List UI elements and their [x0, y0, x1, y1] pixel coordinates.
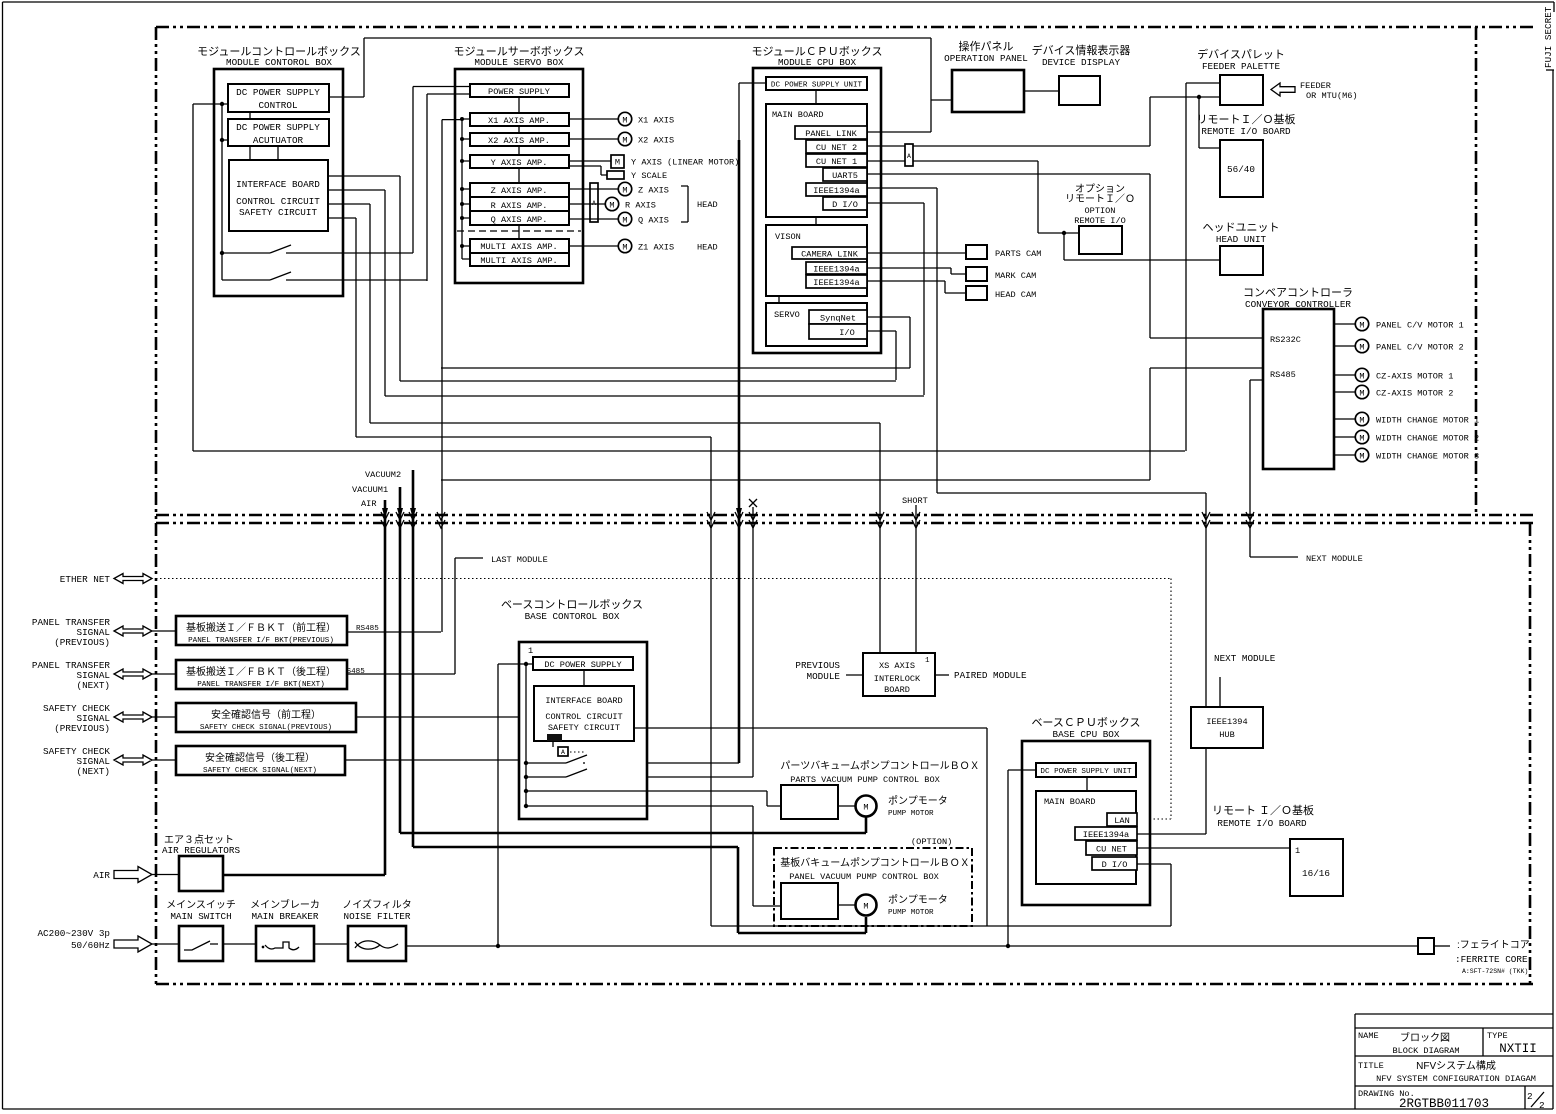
region separator dash-dot lower	[156, 522, 1533, 525]
svg-text:Y AXIS AMP.: Y AXIS AMP.	[491, 158, 548, 168]
main board (base)	[1036, 791, 1136, 884]
wire cu net 2 to feeder palette	[867, 97, 1221, 146]
svg-text:M: M	[622, 136, 627, 146]
svg-text:基板搬送Ｉ／ＦＢＫＴ（前工程）: 基板搬送Ｉ／ＦＢＫＴ（前工程）	[186, 621, 336, 634]
interface board right wires	[328, 176, 400, 218]
svg-text:R AXIS AMP.: R AXIS AMP.	[491, 201, 548, 211]
svg-text:X1 AXIS AMP.: X1 AXIS AMP.	[488, 116, 550, 126]
head cam box	[966, 286, 1036, 300]
svg-text:CZ-AXIS MOTOR 1: CZ-AXIS MOTOR 1	[1376, 372, 1453, 382]
svg-text:A: A	[561, 749, 565, 756]
svg-text:PANEL C/V MOTOR 2: PANEL C/V MOTOR 2	[1376, 343, 1464, 353]
wire d i/o (base) long run	[711, 864, 1171, 926]
motor Z1	[569, 239, 718, 252]
svg-text:NXTII: NXTII	[1499, 1042, 1537, 1056]
r axis amp	[470, 197, 569, 211]
wire uart5 to conveyor rs232c	[867, 174, 1263, 338]
svg-text::FERRITE CORE: :FERRITE CORE	[1455, 954, 1528, 965]
lan port	[1107, 813, 1137, 826]
ether net double arrow	[114, 574, 152, 584]
svg-text:VISON: VISON	[775, 232, 801, 242]
svg-text:OPERATION PANEL: OPERATION PANEL	[944, 53, 1028, 64]
svg-text:SAFETY CIRCUIT: SAFETY CIRCUIT	[239, 207, 318, 218]
svg-text:MAIN BOARD: MAIN BOARD	[772, 110, 824, 120]
svg-text:REMOTE I/O BOARD: REMOTE I/O BOARD	[1217, 818, 1307, 829]
svg-text:SynqNet: SynqNet	[820, 314, 856, 324]
svg-text:CONTROL: CONTROL	[258, 100, 297, 111]
svg-text:HUB: HUB	[1219, 730, 1234, 740]
air input arrow	[114, 867, 152, 883]
cu net 2 port	[806, 140, 867, 153]
rs485 chain x441 lower	[347, 631, 441, 633]
cz-axis motor 1	[1334, 368, 1453, 381]
svg-text:MODULE CPU BOX: MODULE CPU BOX	[778, 57, 857, 68]
module servo box U11	[455, 69, 583, 283]
dc power supply (base)	[533, 657, 633, 670]
svg-text:OPTION: OPTION	[1085, 206, 1116, 216]
base wire to panel vacuum box	[526, 806, 781, 906]
svg-text:RS485: RS485	[1270, 370, 1296, 380]
svg-text:CONTROL CIRCUIT: CONTROL CIRCUIT	[545, 712, 622, 722]
wire operation panel to device display	[1024, 90, 1059, 92]
base switch 1	[526, 762, 566, 764]
svg-text:SAFETY CHECK SIGNAL(NEXT): SAFETY CHECK SIGNAL(NEXT)	[203, 767, 317, 775]
power supply box	[470, 84, 569, 97]
right region dash-dot border (bottom region)	[1529, 523, 1532, 984]
pipe arrowheads at border	[382, 508, 742, 519]
tick below FUJI SECRET	[1546, 69, 1554, 71]
svg-text:FEEDER: FEEDER	[1300, 81, 1331, 91]
base wire to parts vacuum box	[526, 791, 781, 806]
safety check signal (previous) box	[176, 703, 356, 732]
svg-text:(PREVIOUS): (PREVIOUS)	[54, 723, 110, 734]
ieee1394a port (vison 1)	[806, 262, 867, 275]
svg-text:NFVシステム構成: NFVシステム構成	[1416, 1059, 1496, 1072]
svg-text:Z1 AXIS: Z1 AXIS	[638, 243, 674, 253]
svg-text:PARTS CAM: PARTS CAM	[995, 249, 1041, 259]
svg-text:OR MTU(M6): OR MTU(M6)	[1306, 91, 1358, 101]
dashed separator inside servo box	[457, 230, 581, 232]
svg-text:1: 1	[925, 657, 930, 665]
svg-text:INTERFACE BOARD: INTERFACE BOARD	[545, 696, 622, 706]
svg-text:BASE CPU BOX: BASE CPU BOX	[1053, 729, 1120, 740]
svg-text:CONTROL CIRCUIT: CONTROL CIRCUIT	[236, 196, 320, 207]
feeder arrow	[1271, 83, 1295, 96]
svg-text:WIDTH CHANGE MOTOR 2: WIDTH CHANGE MOTOR 2	[1376, 434, 1479, 444]
cz-axis motor 2	[1334, 385, 1453, 398]
connector psu to main board	[815, 90, 817, 104]
wire safety previous to base control box	[356, 716, 519, 718]
svg-text:基板バキュームポンプコントロールＢＯＸ: 基板バキュームポンプコントロールＢＯＸ	[780, 856, 969, 869]
d i/o port (module)	[823, 197, 867, 210]
svg-text:MAIN BOARD: MAIN BOARD	[1044, 797, 1096, 807]
svg-text:デバイスパレット: デバイスパレット	[1197, 47, 1285, 61]
svg-text:HEAD: HEAD	[697, 200, 718, 210]
dc power supply unit (module)	[766, 77, 867, 90]
svg-text:M: M	[1359, 452, 1364, 462]
servo bus dots	[460, 117, 464, 121]
last module stub	[347, 558, 483, 674]
svg-text:DC POWER SUPPLY UNIT: DC POWER SUPPLY UNIT	[1040, 768, 1132, 776]
svg-text:XS AXIS: XS AXIS	[879, 661, 915, 671]
svg-text:CU NET 1: CU NET 1	[816, 157, 857, 167]
svg-text:CU NET 2: CU NET 2	[816, 143, 857, 153]
conveyor rs485 input	[1150, 368, 1263, 480]
dc power supply unit (base)	[1036, 763, 1136, 777]
camera link port	[792, 247, 867, 260]
wire x385 air line (top part)	[384, 190, 386, 396]
base cpu power feed	[1008, 770, 1036, 946]
dc power supply control box	[228, 84, 329, 112]
svg-text:BASE CONTOROL BOX: BASE CONTOROL BOX	[525, 611, 620, 622]
svg-text:2RGTBB011703: 2RGTBB011703	[1399, 1097, 1489, 1111]
svg-text:パーツバキュームポンプコントロールＢＯＸ: パーツバキュームポンプコントロールＢＯＸ	[780, 760, 979, 772]
svg-text:MULTI AXIS AMP.: MULTI AXIS AMP.	[480, 256, 557, 266]
svg-text:M: M	[622, 186, 627, 196]
svg-text:PANEL TRANSFER I/F BKT(PREVIOU: PANEL TRANSFER I/F BKT(PREVIOUS)	[188, 637, 334, 645]
svg-text:CZ-AXIS MOTOR 2: CZ-AXIS MOTOR 2	[1376, 389, 1453, 399]
main board (module)	[766, 104, 867, 217]
synqnet left run joins x441	[441, 367, 910, 369]
air regulators output pipe	[223, 874, 385, 877]
svg-text:IEEE1394a: IEEE1394a	[813, 278, 859, 288]
svg-text:WIDTH CHANGE MOTOR 3: WIDTH CHANGE MOTOR 3	[1376, 452, 1479, 462]
ac input arrow	[114, 936, 152, 952]
svg-text:M: M	[622, 243, 627, 253]
svg-text:MULTI AXIS AMP.: MULTI AXIS AMP.	[480, 242, 557, 252]
svg-text:PANEL C/V MOTOR 1: PANEL C/V MOTOR 1	[1376, 321, 1464, 331]
panel c/v motor 1	[1334, 317, 1464, 330]
wire safety next to base control box	[345, 759, 519, 761]
svg-text:IEEE1394a: IEEE1394a	[813, 265, 859, 275]
svg-text:BOARD: BOARD	[884, 685, 910, 695]
wire ieee1394a to ieee1394 hub	[867, 188, 1206, 707]
svg-text:DC POWER SUPPLY: DC POWER SUPPLY	[236, 122, 320, 133]
svg-text:AIR: AIR	[93, 870, 110, 881]
connector vison to servo unit	[778, 296, 780, 303]
svg-text:AIR: AIR	[361, 499, 376, 509]
multi axis amp 1	[470, 239, 569, 253]
panel link port	[795, 126, 867, 139]
ieee1394a port (main board)	[806, 183, 867, 196]
safety check signal (next) box	[176, 746, 345, 775]
ether net dotted line	[156, 579, 1171, 820]
interface board (base)	[534, 686, 634, 741]
svg-text:1: 1	[1295, 846, 1300, 856]
wire x441 rs485 chain	[442, 120, 462, 632]
wire feeder bus down + 56/40 tap	[1199, 97, 1220, 148]
svg-text:TYPE: TYPE	[1487, 1031, 1508, 1041]
svg-text:IEEE1394: IEEE1394	[1206, 717, 1247, 727]
ieee1394a port (base)	[1075, 827, 1137, 840]
svg-text:M: M	[1359, 434, 1364, 444]
svg-text:安全確認信号（前工程）: 安全確認信号（前工程）	[211, 708, 321, 721]
conveyor rs485 to next module stub	[1250, 380, 1298, 557]
switch blade S2	[270, 272, 291, 280]
svg-text:PUMP MOTOR: PUMP MOTOR	[888, 810, 934, 818]
left feed bus of module control box	[193, 104, 427, 280]
svg-text:UART5: UART5	[832, 171, 858, 181]
svg-text:LAST MODULE: LAST MODULE	[491, 555, 548, 565]
vacuum1 pipe lower to parts pump motor	[400, 487, 866, 833]
svg-text:Q AXIS: Q AXIS	[638, 216, 669, 226]
svg-text:A: A	[907, 153, 911, 160]
svg-text:X2 AXIS AMP.: X2 AXIS AMP.	[488, 136, 550, 146]
svg-text:Z AXIS: Z AXIS	[638, 186, 669, 196]
svg-text:SAFETY CHECK SIGNAL(PREVIOUS): SAFETY CHECK SIGNAL(PREVIOUS)	[200, 724, 332, 732]
wires actuator to interface board	[250, 146, 278, 160]
z axis amp	[470, 183, 569, 197]
svg-text:INTERLOCK: INTERLOCK	[874, 674, 921, 684]
svg-text:16/16: 16/16	[1302, 868, 1330, 879]
head bracket Z/R/Q	[681, 186, 688, 222]
svg-text:X1 AXIS: X1 AXIS	[638, 116, 674, 126]
uart5 port	[823, 168, 867, 181]
region separator dash-dot upper	[156, 514, 1533, 517]
svg-text:ETHER NET: ETHER NET	[60, 574, 111, 585]
vison box	[766, 225, 867, 296]
wire dc power supply control to operation panel (top run)	[329, 38, 952, 132]
mark cam box	[966, 267, 1036, 281]
svg-text:Y SCALE: Y SCALE	[631, 171, 667, 181]
svg-text:基板搬送Ｉ／ＦＢＫＴ（後工程）: 基板搬送Ｉ／ＦＢＫＴ（後工程）	[186, 665, 336, 678]
svg-text:M: M	[1359, 416, 1364, 426]
left region dash-dot border	[155, 27, 158, 984]
motor Q	[569, 212, 669, 225]
module control box U10	[214, 69, 343, 296]
syncnet port	[809, 310, 867, 324]
option dashed box	[774, 848, 972, 926]
y scale	[569, 166, 667, 181]
q axis amp	[470, 211, 569, 225]
switch blade S1	[270, 245, 291, 253]
svg-text:56/40: 56/40	[1227, 164, 1255, 175]
d-io left run joins x413	[385, 395, 924, 397]
svg-text:DC POWER SUPPLY UNIT: DC POWER SUPPLY UNIT	[771, 82, 863, 90]
base internal bus	[525, 664, 527, 806]
d i/o port (base)	[1092, 857, 1137, 870]
svg-text:PREVIOUS: PREVIOUS	[795, 660, 840, 671]
svg-text:ポンプモータ: ポンプモータ	[888, 795, 948, 807]
svg-text:REMOTE I/O: REMOTE I/O	[1074, 216, 1126, 226]
svg-text:MODULE SERVO BOX: MODULE SERVO BOX	[474, 57, 564, 68]
svg-text:リモートＩ／Ｏ: リモートＩ／Ｏ	[1065, 193, 1135, 205]
wire x427 switch2 to servo power	[427, 94, 470, 281]
linear motor Y	[569, 155, 739, 168]
svg-text:安全確認信号（後工程）: 安全確認信号（後工程）	[205, 751, 315, 764]
wire ieee1394a to mark cam	[867, 268, 966, 274]
svg-text:NEXT MODULE: NEXT MODULE	[1306, 554, 1363, 564]
svg-text:リモートＩ／Ｏ基板: リモートＩ／Ｏ基板	[1197, 112, 1296, 126]
svg-text:SHORT: SHORT	[902, 496, 928, 506]
svg-text:PAIRED MODULE: PAIRED MODULE	[954, 670, 1027, 681]
module cpu box title	[752, 45, 883, 68]
ferrite core A (cu net)	[905, 144, 913, 166]
svg-text:IEEE1394a: IEEE1394a	[1083, 830, 1129, 840]
wire x400 vacuum1 line (top part)	[400, 176, 896, 381]
wire x356 to xs-axis interlock	[356, 218, 711, 437]
x711 wire lower	[710, 437, 712, 926]
svg-text:NOISE FILTER: NOISE FILTER	[344, 911, 411, 922]
svg-text:メインスイッチ: メインスイッチ	[166, 899, 236, 911]
svg-text:2: 2	[1539, 1100, 1545, 1111]
svg-text:VACUUM2: VACUUM2	[365, 470, 401, 480]
svg-text:ブロック図: ブロック図	[1400, 1031, 1450, 1044]
svg-text:FEEDER PALETTE: FEEDER PALETTE	[1202, 61, 1281, 72]
panel c/v motor 2	[1334, 339, 1464, 352]
svg-text:M: M	[609, 201, 614, 211]
svg-text:コンベアコントローラ: コンベアコントローラ	[1243, 287, 1353, 299]
svg-text:1: 1	[528, 646, 533, 656]
wire ieee1394a to head cam	[867, 281, 966, 293]
parts pump motor	[838, 795, 948, 818]
connector to interface board (base)	[583, 670, 585, 686]
x2 axis amp	[470, 133, 569, 146]
svg-text:2: 2	[1527, 1091, 1533, 1102]
svg-text:NAME: NAME	[1358, 1031, 1379, 1041]
svg-text:操作パネル: 操作パネル	[959, 39, 1014, 53]
connector main board to vison	[815, 217, 817, 225]
wire ieee1394a to hub	[1137, 748, 1206, 834]
panel pump motor	[838, 894, 948, 917]
svg-text:RS232C: RS232C	[1270, 335, 1301, 345]
i/o port (servo)	[809, 324, 867, 339]
svg-text:SERVO: SERVO	[774, 310, 800, 320]
junction dots left bus	[220, 102, 224, 106]
connector psu to main board (base)	[1086, 777, 1088, 791]
svg-text:デバイス情報表示器: デバイス情報表示器	[1032, 43, 1131, 57]
svg-text:M: M	[863, 902, 868, 912]
wire cu net 1 to option remote io / head unit	[867, 161, 1220, 260]
svg-text:HEAD CAM: HEAD CAM	[995, 290, 1036, 300]
wire x370 to base d-io run	[370, 204, 880, 423]
wire i/o left	[867, 331, 896, 380]
cu net 1 port	[806, 154, 867, 167]
air pipe lower	[384, 500, 387, 875]
svg-text:ACUTUATOR: ACUTUATOR	[253, 135, 304, 146]
motor X1	[569, 112, 674, 125]
svg-text:BLOCK DIAGRAM: BLOCK DIAGRAM	[1392, 1046, 1459, 1056]
svg-text:MAIN SWITCH: MAIN SWITCH	[170, 911, 231, 922]
svg-text:LAN: LAN	[1114, 816, 1129, 826]
svg-text:ベースコントロールボックス: ベースコントロールボックス	[501, 598, 643, 611]
svg-text:PANEL LINK: PANEL LINK	[805, 129, 857, 139]
short stub to xs interlock	[915, 505, 917, 653]
wire x413 vacuum2 line (top part)	[413, 87, 470, 254]
svg-text:ベースＣＰＵボックス: ベースＣＰＵボックス	[1031, 716, 1140, 729]
svg-text:MODULE CONTOROL BOX: MODULE CONTOROL BOX	[226, 57, 332, 68]
servo left feed bus	[462, 119, 470, 259]
svg-text:PUMP MOTOR: PUMP MOTOR	[888, 909, 934, 917]
svg-text:WIDTH CHANGE MOTOR 1: WIDTH CHANGE MOTOR 1	[1376, 416, 1479, 426]
module control box title	[197, 45, 361, 68]
ferrite core A (base)	[552, 741, 554, 747]
amp vertical connectors	[518, 97, 520, 239]
svg-text:IEEE1394a: IEEE1394a	[813, 186, 859, 196]
svg-text:(NEXT): (NEXT)	[77, 680, 110, 691]
top region dash-dot border	[156, 26, 1533, 29]
svg-text:DC POWER SUPPLY: DC POWER SUPPLY	[544, 660, 621, 670]
ac wire chain	[152, 944, 1418, 946]
feed wire dc power supply unit via x739	[738, 83, 740, 140]
svg-text:X2 AXIS: X2 AXIS	[638, 136, 674, 146]
motor R	[569, 197, 656, 210]
wire d i/o down-left	[867, 203, 924, 395]
cu net port (base)	[1086, 841, 1137, 855]
svg-text:(NEXT): (NEXT)	[77, 766, 110, 777]
base switch 2	[526, 776, 566, 778]
wire psu-control to actuator	[249, 112, 251, 119]
svg-text:ヘッドユニット: ヘッドユニット	[1203, 222, 1280, 234]
svg-text:ノイズフィルタ: ノイズフィルタ	[342, 898, 412, 911]
svg-text:M: M	[1359, 321, 1364, 331]
svg-text:MARK CAM: MARK CAM	[995, 271, 1036, 281]
svg-text:I/O: I/O	[839, 328, 854, 338]
svg-text:AC200~230V 3p: AC200~230V 3p	[37, 928, 110, 939]
motor X2	[569, 132, 674, 145]
panel transfer i/f bkt (next) box	[176, 660, 347, 689]
svg-text:M: M	[622, 216, 627, 226]
wire cu net to remote io 16/16	[1137, 847, 1290, 849]
long left power wire down to y451	[193, 104, 1185, 451]
connector block (hatched)	[547, 734, 562, 741]
svg-text:PANEL VACUUM PUMP CONTROL BOX: PANEL VACUUM PUMP CONTROL BOX	[789, 872, 939, 882]
border chevron arrows	[381, 512, 1254, 528]
multi axis amp 2	[470, 253, 569, 266]
rs485 tap to conveyor	[441, 479, 1150, 481]
svg-text:MODULE: MODULE	[807, 671, 841, 682]
panel transfer i/f bkt (previous) box	[176, 616, 347, 645]
x739 to switch1	[585, 762, 739, 764]
svg-text:メインブレーカ: メインブレーカ	[250, 898, 320, 911]
interface board (base) right wire	[634, 728, 987, 926]
interface board / control circuit safety circuit box	[229, 160, 328, 231]
svg-text:Q AXIS AMP.: Q AXIS AMP.	[491, 215, 548, 225]
ferrite core A (servo)	[590, 183, 598, 222]
svg-text:A:SFT-72SN# (TKK): A:SFT-72SN# (TKK)	[1462, 968, 1528, 975]
svg-text:DEVICE DISPLAY: DEVICE DISPLAY	[1042, 57, 1121, 68]
svg-text:SAFETY CIRCUIT: SAFETY CIRCUIT	[548, 723, 620, 733]
ieee1394a port (vison 2)	[806, 275, 867, 288]
bottom region dash-dot border	[156, 983, 1533, 986]
svg-text:M: M	[863, 803, 868, 813]
svg-text:VACUUM1: VACUUM1	[352, 485, 388, 495]
x753 stub with x-mark to switch2	[585, 507, 753, 777]
svg-text:M: M	[615, 158, 620, 168]
svg-text:FUJI SECRET: FUJI SECRET	[1543, 6, 1554, 68]
svg-text:M: M	[1359, 343, 1364, 353]
svg-text:NEXT MODULE: NEXT MODULE	[1214, 653, 1276, 664]
width change motor 3	[1334, 448, 1479, 461]
svg-text:MAIN BREAKER: MAIN BREAKER	[252, 911, 319, 922]
svg-text:PANEL TRANSFER I/F BKT(NEXT): PANEL TRANSFER I/F BKT(NEXT)	[197, 681, 325, 689]
svg-text:(PREVIOUS): (PREVIOUS)	[54, 637, 110, 648]
svg-text:RS485: RS485	[356, 625, 379, 633]
svg-text:CU NET: CU NET	[1096, 845, 1127, 855]
svg-text:M: M	[1359, 372, 1364, 382]
svg-text:Y AXIS (LINEAR MOTOR): Y AXIS (LINEAR MOTOR)	[631, 158, 739, 168]
right partition dash-dot (top region)	[1475, 27, 1478, 515]
svg-text:ポンプモータ: ポンプモータ	[888, 894, 948, 906]
dc power supply actuator box	[228, 119, 329, 146]
svg-text:HEAD UNIT: HEAD UNIT	[1216, 234, 1267, 245]
svg-text:PARTS VACUUM PUMP CONTROL BOX: PARTS VACUUM PUMP CONTROL BOX	[790, 775, 940, 785]
parts cam box	[966, 245, 1041, 259]
svg-text:D I/O: D I/O	[1102, 860, 1128, 870]
svg-text:(OPTION): (OPTION)	[911, 837, 952, 847]
svg-text:Z AXIS AMP.: Z AXIS AMP.	[491, 186, 548, 196]
svg-text:M: M	[622, 116, 627, 126]
